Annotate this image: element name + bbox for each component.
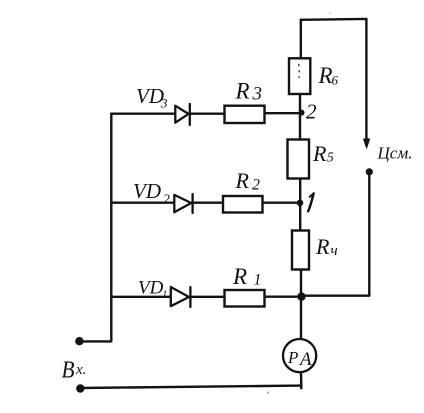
svg-text:R: R <box>235 79 250 104</box>
svg-text:2: 2 <box>252 177 260 194</box>
svg-text:2: 2 <box>306 100 317 124</box>
svg-text:1: 1 <box>254 272 262 289</box>
svg-text:ч: ч <box>331 243 338 259</box>
svg-text:6: 6 <box>332 73 339 88</box>
svg-text:х.: х. <box>75 362 86 378</box>
svg-text:1: 1 <box>162 289 168 301</box>
svg-text:A: A <box>298 349 312 370</box>
svg-text:R: R <box>232 264 247 289</box>
svg-text:5: 5 <box>327 150 334 165</box>
svg-text:2: 2 <box>163 192 170 207</box>
svg-text:R: R <box>318 63 333 88</box>
svg-text:VD: VD <box>136 84 164 108</box>
svg-text:Цсм.: Цсм. <box>377 144 413 163</box>
svg-text:R: R <box>315 234 330 259</box>
svg-text:R: R <box>312 141 327 166</box>
svg-text:R: R <box>235 168 250 193</box>
svg-text:3: 3 <box>160 96 168 111</box>
svg-text:3: 3 <box>252 84 263 105</box>
svg-text:VD: VD <box>133 179 161 203</box>
svg-text:VD: VD <box>138 278 164 299</box>
svg-text:P: P <box>287 348 298 367</box>
svg-text:В: В <box>62 358 75 384</box>
